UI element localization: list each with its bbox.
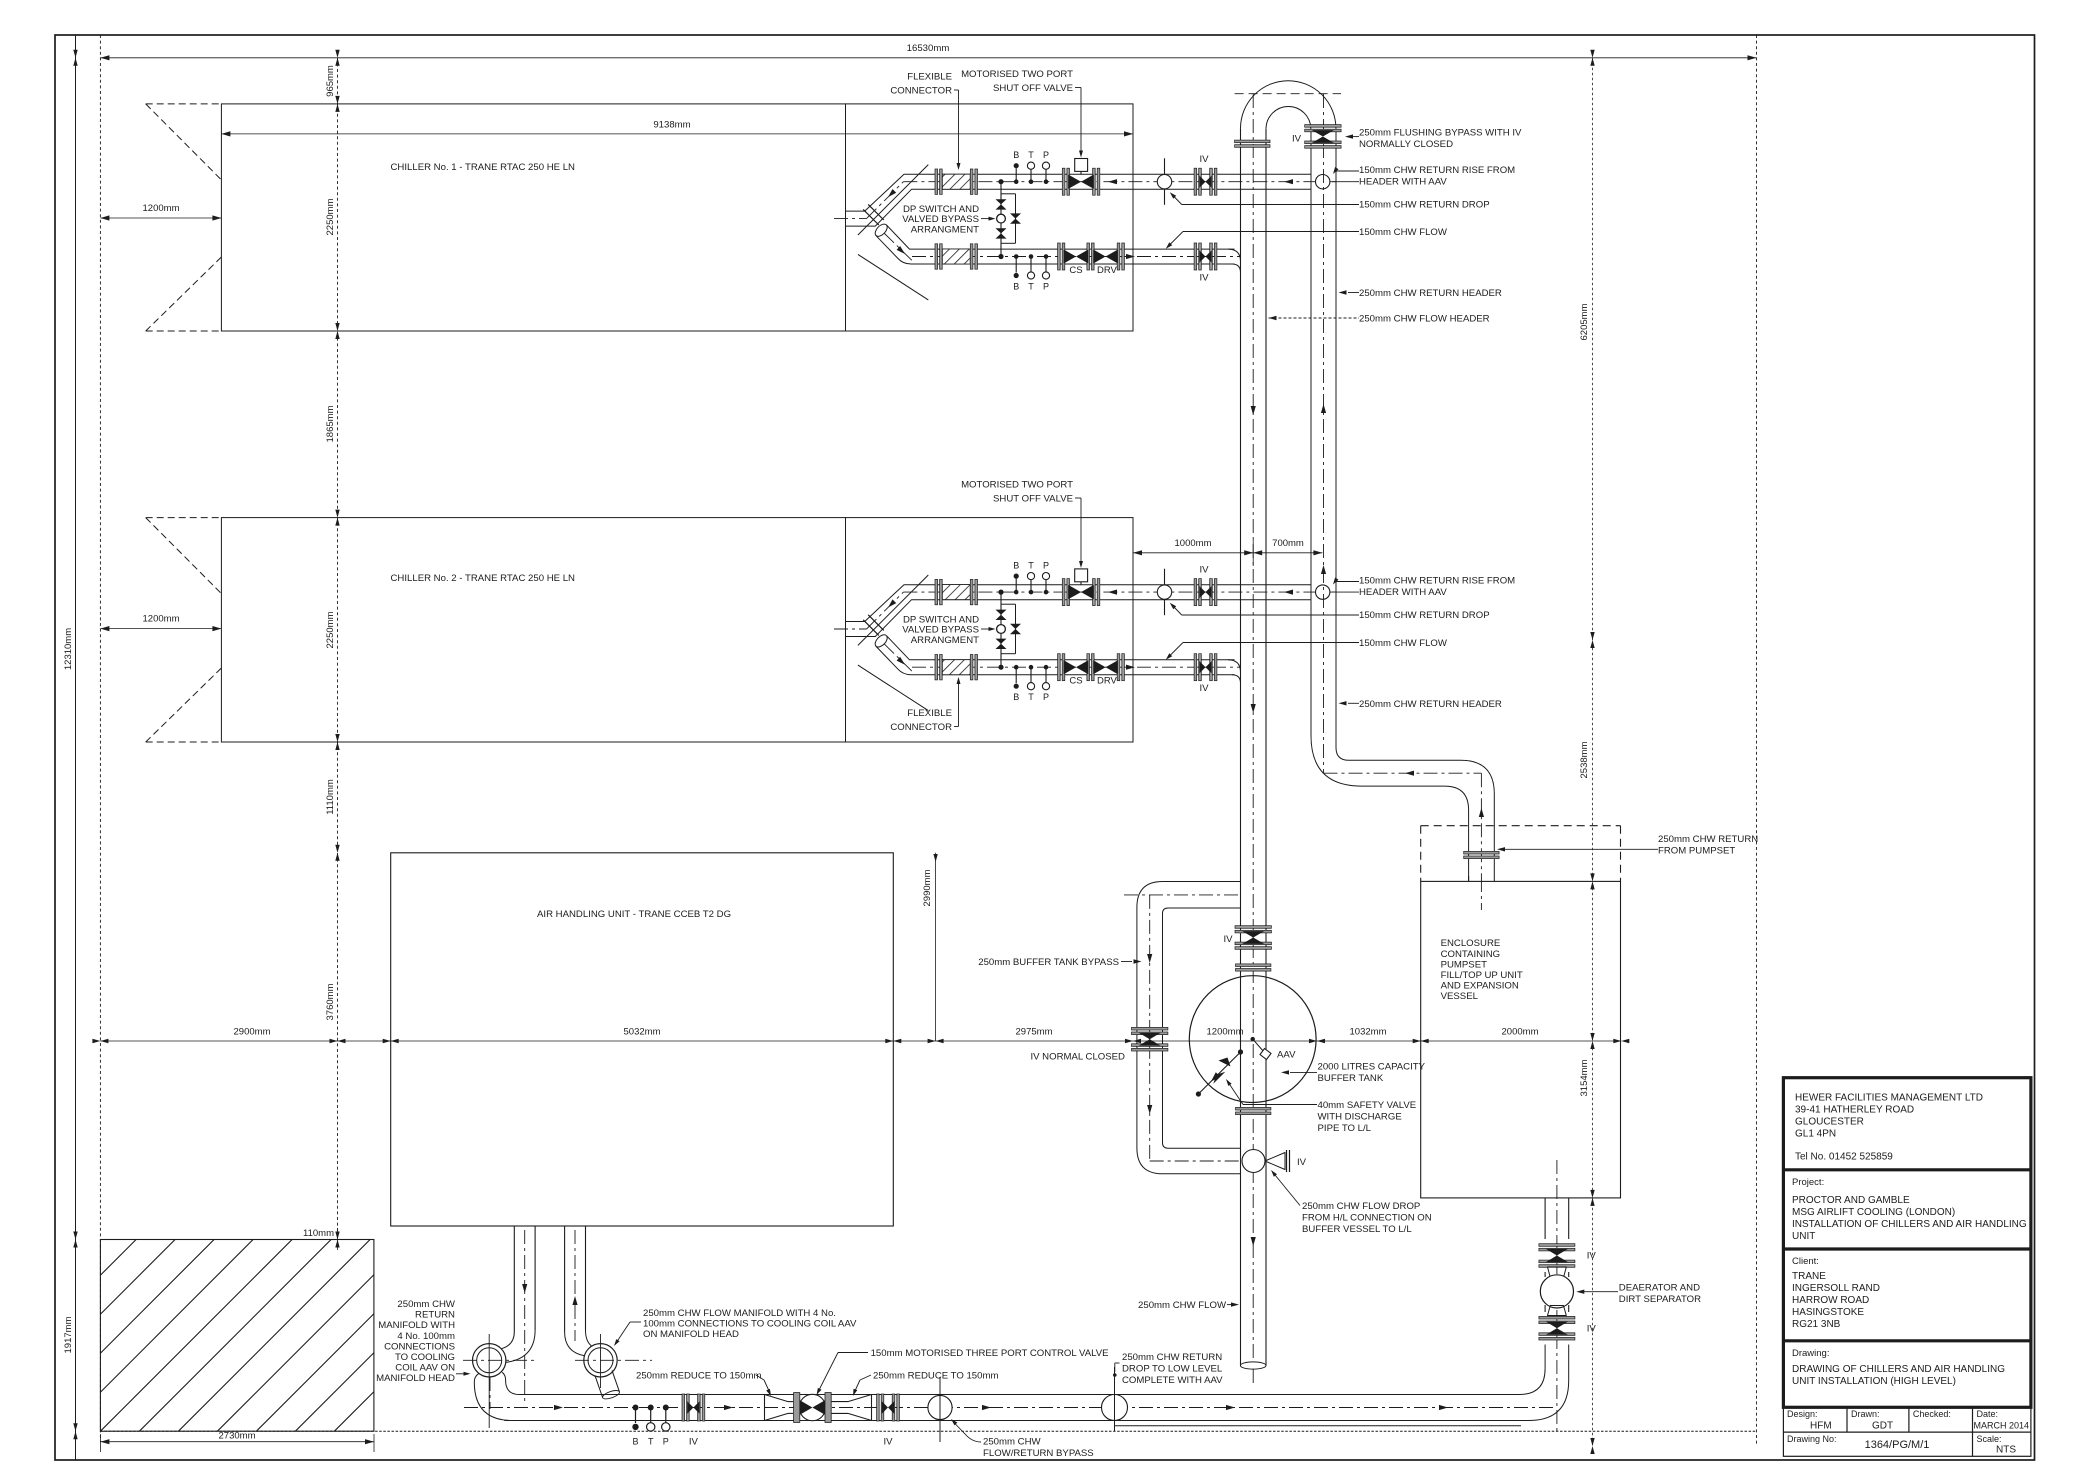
svg-text:2900mm: 2900mm xyxy=(234,1027,271,1038)
bypass pipe line to riser xyxy=(1115,1425,1521,1427)
svg-text:P: P xyxy=(1043,692,1049,702)
chiller 2 test points B T P on flow xyxy=(1013,665,1049,702)
svg-text:COMPLETE WITH AAV: COMPLETE WITH AAV xyxy=(1122,1375,1223,1386)
svg-text:UNIT INSTALLATION (HIGH LEVEL): UNIT INSTALLATION (HIGH LEVEL) xyxy=(1792,1376,1956,1387)
deaerator and dirt separator vessel xyxy=(1540,1267,1573,1316)
chiller 2 return flow arrow near header xyxy=(1284,590,1293,595)
svg-text:1917mm: 1917mm xyxy=(63,1316,74,1353)
svg-text:CONNECTOR: CONNECTOR xyxy=(890,722,952,733)
svg-text:250mm CHW RETURN: 250mm CHW RETURN xyxy=(1658,834,1758,845)
svg-text:AND EXPANSION: AND EXPANSION xyxy=(1441,981,1519,992)
svg-text:IV: IV xyxy=(1587,1251,1597,1262)
svg-text:SHUT OFF VALVE: SHUT OFF VALVE xyxy=(993,83,1073,94)
svg-text:250mm CHW: 250mm CHW xyxy=(983,1437,1042,1448)
title block company address xyxy=(1783,1093,2031,1170)
dimension line 1200mm chiller1 xyxy=(100,203,221,221)
svg-text:PUMPSET: PUMPSET xyxy=(1441,959,1488,970)
dimension extension line right x1757 xyxy=(1756,35,1758,1446)
bypass valve IV normally closed xyxy=(1132,1027,1168,1051)
svg-text:6205mm: 6205mm xyxy=(1579,303,1590,340)
chiller 1 flexible connector on return xyxy=(935,169,978,194)
svg-text:965mm: 965mm xyxy=(325,65,336,97)
svg-text:700mm: 700mm xyxy=(1272,538,1304,549)
chiller 1 isolation valve IV on return xyxy=(1194,154,1217,195)
return pipe flange at enclosure entry xyxy=(1464,851,1499,854)
chiller 2 motorised valve label xyxy=(961,480,1083,569)
deaerator isolation valve IV upper xyxy=(1539,1244,1596,1268)
chiller 1 flow direction arrow xyxy=(1126,254,1135,259)
svg-text:BUFFER TANK: BUFFER TANK xyxy=(1318,1073,1384,1084)
svg-text:INSTALLATION OF CHILLERS AND A: INSTALLATION OF CHILLERS AND AIR HANDLIN… xyxy=(1792,1219,2027,1230)
chiller 1 return flow direction arrow xyxy=(1108,179,1117,184)
chiller 1 DP switch and valved bypass xyxy=(996,179,1022,259)
chiller 2 return flow direction arrow xyxy=(1108,590,1117,595)
svg-text:B: B xyxy=(632,1437,638,1447)
svg-text:HARROW ROAD: HARROW ROAD xyxy=(1792,1295,1869,1306)
label 40mm safety valve xyxy=(1226,1079,1416,1134)
drain valve IV with cap at flow drop xyxy=(1242,1150,1307,1173)
svg-text:FLEXIBLE: FLEXIBLE xyxy=(907,72,952,83)
svg-text:IV: IV xyxy=(1223,934,1233,945)
svg-text:IV: IV xyxy=(689,1437,699,1448)
air handling unit box xyxy=(391,853,894,1226)
chiller 2 flexible connector label xyxy=(890,677,960,733)
svg-text:T: T xyxy=(1028,282,1034,292)
svg-text:FROM H/L CONNECTION ON: FROM H/L CONNECTION ON xyxy=(1302,1213,1432,1224)
svg-text:IV: IV xyxy=(1199,154,1209,165)
svg-text:Design:: Design: xyxy=(1787,1409,1818,1419)
svg-text:2250mm: 2250mm xyxy=(325,611,336,648)
svg-text:RETURN: RETURN xyxy=(415,1310,455,1321)
svg-text:P: P xyxy=(1043,150,1049,160)
label 250mm CHW return manifold xyxy=(376,1299,470,1384)
return header vertical pipe 250mm xyxy=(1311,94,1494,881)
svg-text:250mm CHW RETURN: 250mm CHW RETURN xyxy=(1122,1352,1222,1363)
dimension line 2990mm AHU right xyxy=(922,853,938,1041)
svg-text:250mm CHW FLOW DROP: 250mm CHW FLOW DROP xyxy=(1302,1201,1420,1212)
flow-return bypass connection circle xyxy=(928,1377,952,1442)
svg-text:RG21 3NB: RG21 3NB xyxy=(1792,1319,1841,1330)
svg-text:1200mm: 1200mm xyxy=(1207,1027,1244,1038)
svg-text:T: T xyxy=(1028,692,1034,702)
svg-text:Drawing No:: Drawing No: xyxy=(1787,1434,1837,1444)
chiller 2 DP switch and valved bypass xyxy=(996,590,1022,670)
datum line bottom xyxy=(100,1430,1756,1432)
chiller 1 flexible connector label xyxy=(890,72,960,171)
pumpset enclosure box xyxy=(1421,881,1621,1198)
svg-text:150mm CHW RETURN RISE FROM: 150mm CHW RETURN RISE FROM xyxy=(1359,165,1515,176)
svg-text:ARRANGMENT: ARRANGMENT xyxy=(911,225,979,236)
chiller 2 flow direction arrow xyxy=(1126,665,1135,670)
buffer tank AAV symbol xyxy=(1251,1037,1297,1061)
svg-text:IV: IV xyxy=(1199,273,1209,284)
svg-text:CHILLER No. 2 - TRANE RTAC 250: CHILLER No. 2 - TRANE RTAC 250 HE LN xyxy=(391,573,576,584)
svg-text:150mm CHW FLOW: 150mm CHW FLOW xyxy=(1359,227,1448,238)
svg-text:250mm CHW RETURN HEADER: 250mm CHW RETURN HEADER xyxy=(1359,699,1502,710)
bottom main pipe 250mm flow-return xyxy=(464,1395,1557,1421)
svg-text:250mm CHW: 250mm CHW xyxy=(397,1299,456,1310)
svg-text:WITH DISCHARGE: WITH DISCHARGE xyxy=(1318,1112,1402,1123)
flushing bypass valve IV on return header xyxy=(1292,125,1341,149)
title block drawing section xyxy=(1792,1348,2005,1387)
label 150mm CHW flow chiller2 xyxy=(1166,638,1448,660)
chiller 1 flow branch elbow into flow header xyxy=(1228,249,1241,272)
svg-text:110mm: 110mm xyxy=(303,1228,334,1239)
chiller 2 DP switch label xyxy=(902,614,995,646)
svg-text:ON MANIFOLD HEAD: ON MANIFOLD HEAD xyxy=(643,1329,739,1340)
label 250mm CHW return from pumpset xyxy=(1497,834,1758,857)
svg-text:IV: IV xyxy=(883,1437,893,1448)
svg-text:B: B xyxy=(1013,561,1019,571)
svg-text:DRV: DRV xyxy=(1097,676,1118,687)
chiller 2 flexible connector on return xyxy=(935,579,978,604)
svg-text:T: T xyxy=(648,1437,654,1447)
hatched plinth box xyxy=(0,1236,529,1431)
CHILLER No. 2 - TRANE RTAC 250 HE LN chevron notch xyxy=(146,518,222,742)
chiller 1 return connection flange ticks xyxy=(863,204,884,225)
svg-text:Project:: Project: xyxy=(1792,1177,1824,1188)
title block client section xyxy=(1783,1256,2031,1341)
svg-text:IV: IV xyxy=(1199,683,1209,694)
svg-text:Drawn:: Drawn: xyxy=(1851,1409,1880,1419)
svg-text:1364/PG/M/1: 1364/PG/M/1 xyxy=(1865,1439,1930,1451)
svg-text:250mm CHW FLOW: 250mm CHW FLOW xyxy=(1138,1300,1227,1311)
svg-text:GLOUCESTER: GLOUCESTER xyxy=(1795,1117,1864,1128)
svg-text:250mm CHW RETURN HEADER: 250mm CHW RETURN HEADER xyxy=(1359,288,1502,299)
svg-text:CONTAINING: CONTAINING xyxy=(1441,949,1501,960)
svg-text:FLEXIBLE: FLEXIBLE xyxy=(907,708,952,719)
svg-text:HEWER FACILITIES MANAGEMENT LT: HEWER FACILITIES MANAGEMENT LTD xyxy=(1795,1093,1983,1104)
return header up arrows xyxy=(1321,404,1326,574)
return manifold drop pipe to bottom main xyxy=(474,1372,522,1420)
chiller 2 flow branch pipe xyxy=(873,633,1240,675)
svg-text:GL1 4PN: GL1 4PN xyxy=(1795,1129,1836,1140)
svg-text:B: B xyxy=(1013,282,1019,292)
svg-text:2975mm: 2975mm xyxy=(1016,1027,1053,1038)
chiller 1 flexible connector on flow xyxy=(935,244,978,269)
label 2000 litres capacity buffer tank xyxy=(1281,1062,1426,1085)
svg-text:2990mm: 2990mm xyxy=(922,869,933,906)
flow header flange below U xyxy=(1235,140,1270,147)
svg-text:1200mm: 1200mm xyxy=(143,614,180,625)
svg-text:B: B xyxy=(1013,692,1019,702)
isolation valve IV above buffer tank xyxy=(1223,926,1271,971)
chiller 2 AAV circle at return header xyxy=(1316,585,1330,599)
svg-text:2000 LITRES CAPACITY: 2000 LITRES CAPACITY xyxy=(1318,1062,1426,1073)
chiller 2 isolation valve IV on flow xyxy=(1194,654,1217,695)
bottom isolation valve IV second xyxy=(877,1394,900,1448)
return run arrow toward header xyxy=(1405,771,1414,776)
svg-text:FROM PUMPSET: FROM PUMPSET xyxy=(1658,846,1735,857)
label 150mm CHW return drop chiller2 xyxy=(1170,603,1490,621)
dimension line 2730mm xyxy=(100,1431,374,1453)
svg-text:BUFFER VESSEL TO L/L: BUFFER VESSEL TO L/L xyxy=(1302,1224,1412,1235)
svg-text:250mm REDUCE TO 150mm: 250mm REDUCE TO 150mm xyxy=(873,1371,998,1382)
title block signature rows xyxy=(1783,1407,2031,1456)
svg-text:NTS: NTS xyxy=(1996,1445,2016,1456)
svg-text:Tel No. 01452 525859: Tel No. 01452 525859 xyxy=(1795,1152,1893,1163)
svg-text:ARRANGMENT: ARRANGMENT xyxy=(911,635,979,646)
svg-text:AIR HANDLING UNIT - TRANE CCEB: AIR HANDLING UNIT - TRANE CCEB T2 DG xyxy=(537,909,731,920)
horizontal dimension chain y1041 xyxy=(92,1027,1629,1044)
svg-text:P: P xyxy=(1043,282,1049,292)
header U bend top xyxy=(1235,81,1341,129)
svg-text:150mm CHW RETURN RISE FROM: 150mm CHW RETURN RISE FROM xyxy=(1359,576,1515,587)
svg-text:1865mm: 1865mm xyxy=(325,405,336,442)
bottom isolation valve IV first xyxy=(682,1394,705,1448)
label 250mm flushing bypass xyxy=(1345,128,1522,151)
chiller 1 test points B T P on return xyxy=(1013,150,1049,184)
svg-text:P: P xyxy=(663,1437,669,1447)
svg-text:DIRT SEPARATOR: DIRT SEPARATOR xyxy=(1619,1294,1701,1305)
label 250mm CHW flow manifold xyxy=(614,1308,857,1346)
svg-text:1200mm: 1200mm xyxy=(143,203,180,214)
svg-text:250mm FLUSHING BYPASS WITH IV: 250mm FLUSHING BYPASS WITH IV xyxy=(1359,128,1522,139)
chiller 2 return pipe end cut line xyxy=(858,575,928,645)
dimension line 16530mm top xyxy=(100,43,1756,60)
label 250mm CHW flow header xyxy=(1269,314,1490,325)
svg-text:DEAERATOR AND: DEAERATOR AND xyxy=(1619,1283,1700,1294)
bottom pipe flow arrows xyxy=(554,1405,1448,1410)
three port control valve xyxy=(794,1393,832,1423)
chiller 2 flexible connector on flow xyxy=(935,655,978,680)
svg-text:PIPE TO L/L: PIPE TO L/L xyxy=(1318,1123,1372,1134)
svg-text:100mm CONNECTIONS TO COOLING C: 100mm CONNECTIONS TO COOLING COIL AAV xyxy=(643,1319,857,1330)
chiller 1 AAV circle at return header xyxy=(1316,175,1330,189)
svg-text:IV: IV xyxy=(1297,1157,1307,1168)
svg-text:HFM: HFM xyxy=(1810,1421,1832,1432)
label 250mm reduce to 150mm left xyxy=(636,1371,771,1396)
CHILLER No. 1 - TRANE RTAC 250 HE LN chevron notch xyxy=(146,104,222,331)
label 250mm CHW return header lower xyxy=(1339,699,1502,710)
dimension extension line left x100 xyxy=(99,35,101,1442)
chiller 2 flow branch elbow into flow header xyxy=(1228,660,1241,683)
svg-text:1000mm: 1000mm xyxy=(1175,538,1212,549)
svg-text:12310mm: 12310mm xyxy=(63,628,74,670)
dimension line 9138mm chiller1 xyxy=(221,120,1133,137)
dimension line 1200mm chiller2 xyxy=(100,614,221,632)
bottom test points B T P xyxy=(632,1405,670,1447)
label 150mm CHW return drop chiller1 xyxy=(1170,192,1490,210)
svg-text:INGERSOLL RAND: INGERSOLL RAND xyxy=(1792,1283,1880,1294)
svg-text:IV NORMAL CLOSED: IV NORMAL CLOSED xyxy=(1030,1052,1125,1063)
svg-text:UNIT: UNIT xyxy=(1792,1231,1815,1242)
chiller 2 return branch pipe xyxy=(834,585,1336,637)
svg-text:MOTORISED TWO PORT: MOTORISED TWO PORT xyxy=(961,69,1073,80)
CHILLER No. 1 - TRANE RTAC 250 HE LN box xyxy=(221,104,1133,331)
svg-text:150mm CHW RETURN DROP: 150mm CHW RETURN DROP xyxy=(1359,200,1490,211)
dimension chain left x338 verticals xyxy=(335,50,339,1248)
svg-text:Client:: Client: xyxy=(1792,1256,1819,1267)
svg-text:16530mm: 16530mm xyxy=(907,43,950,54)
svg-text:4 No. 100mm: 4 No. 100mm xyxy=(397,1331,455,1342)
chiller 1 flow pipe end cut line xyxy=(858,254,928,300)
label 250mm CHW return drop to low level xyxy=(1113,1352,1223,1386)
svg-text:1032mm: 1032mm xyxy=(1350,1027,1387,1038)
return pipe stub inside enclosure xyxy=(1469,876,1482,910)
dimension chain right x1592 6205 2538 3154 xyxy=(1579,50,1595,1454)
pumpset enclosure dashed top xyxy=(1421,826,1621,882)
svg-text:Checked:: Checked: xyxy=(1913,1409,1951,1419)
svg-text:MANIFOLD WITH: MANIFOLD WITH xyxy=(378,1320,455,1331)
svg-text:CHILLER No. 1 - TRANE RTAC 250: CHILLER No. 1 - TRANE RTAC 250 HE LN xyxy=(391,162,576,173)
chiller 2 return connection flange ticks xyxy=(863,615,884,636)
pumpset enclosure text xyxy=(1441,938,1523,1002)
svg-text:CS: CS xyxy=(1069,265,1082,276)
chiller 1 motorised two port shut off valve xyxy=(1062,159,1099,196)
AHU flow rise pipe from manifold xyxy=(565,1226,593,1356)
svg-text:3154mm: 3154mm xyxy=(1579,1059,1590,1096)
svg-text:FLOW/RETURN BYPASS: FLOW/RETURN BYPASS xyxy=(983,1448,1094,1459)
chiller 2 AAV on return drop xyxy=(1157,569,1171,616)
svg-text:CONNECTOR: CONNECTOR xyxy=(890,86,952,97)
svg-text:HEADER WITH AAV: HEADER WITH AAV xyxy=(1359,177,1447,188)
chiller 2 motorised two port shut off valve xyxy=(1062,569,1099,606)
label 150mm CHW return rise chiller2 xyxy=(1332,576,1515,599)
svg-text:Date:: Date: xyxy=(1977,1409,1999,1419)
svg-text:3760mm: 3760mm xyxy=(325,983,336,1020)
svg-text:150mm CHW FLOW: 150mm CHW FLOW xyxy=(1359,638,1448,649)
svg-text:2538mm: 2538mm xyxy=(1579,741,1590,778)
svg-text:DRAWING OF CHILLERS AND AIR HA: DRAWING OF CHILLERS AND AIR HANDLING xyxy=(1792,1364,2005,1375)
40mm safety valve on tank xyxy=(1196,1049,1243,1096)
2000 litres buffer tank xyxy=(1189,976,1316,1103)
label 250mm CHW flow at drop pipe xyxy=(1138,1300,1239,1311)
svg-text:9138mm: 9138mm xyxy=(653,120,690,131)
svg-text:5032mm: 5032mm xyxy=(624,1027,661,1038)
svg-text:CS: CS xyxy=(1069,676,1082,687)
svg-text:39-41 HATHERLEY ROAD: 39-41 HATHERLEY ROAD xyxy=(1795,1105,1914,1116)
svg-text:ENCLOSURE: ENCLOSURE xyxy=(1441,938,1501,949)
svg-text:IV: IV xyxy=(1587,1323,1597,1334)
svg-text:PROCTOR AND GAMBLE: PROCTOR AND GAMBLE xyxy=(1792,1195,1910,1206)
label 150mm CHW flow chiller1 xyxy=(1166,227,1448,249)
chiller 1 CS and DRV valves xyxy=(1058,243,1125,276)
chiller 1 motorised valve label xyxy=(961,69,1083,158)
svg-text:250mm REDUCE TO 150mm: 250mm REDUCE TO 150mm xyxy=(636,1371,761,1382)
flow header down arrows xyxy=(1251,406,1256,1246)
svg-text:T: T xyxy=(1028,561,1034,571)
svg-text:HEADER WITH AAV: HEADER WITH AAV xyxy=(1359,587,1447,598)
chiller 1 isolation valve IV on flow xyxy=(1194,243,1217,284)
svg-text:TO COOLING: TO COOLING xyxy=(395,1352,455,1363)
svg-text:TRANE: TRANE xyxy=(1792,1271,1826,1282)
svg-text:250mm CHW FLOW HEADER: 250mm CHW FLOW HEADER xyxy=(1359,314,1490,325)
label 150mm CHW return rise chiller1 xyxy=(1332,165,1515,188)
svg-text:CONNECTIONS: CONNECTIONS xyxy=(384,1341,455,1352)
svg-text:150mm MOTORISED THREE PORT CON: 150mm MOTORISED THREE PORT CONTROL VALVE xyxy=(871,1348,1109,1359)
svg-text:SHUT OFF VALVE: SHUT OFF VALVE xyxy=(993,494,1073,505)
svg-text:2730mm: 2730mm xyxy=(219,1431,256,1442)
svg-text:2000mm: 2000mm xyxy=(1502,1027,1539,1038)
buffer tank bypass pipe xyxy=(1124,882,1241,1174)
chiller 2 flow pipe end cut line xyxy=(858,665,928,711)
svg-text:COIL AAV ON: COIL AAV ON xyxy=(395,1363,455,1374)
title block project section xyxy=(1783,1177,2031,1249)
svg-text:DRV: DRV xyxy=(1097,265,1118,276)
return riser up arrow at pumpset xyxy=(1479,808,1484,817)
flow manifold with connections xyxy=(575,1334,652,1401)
svg-text:250mm CHW FLOW MANIFOLD WITH 4: 250mm CHW FLOW MANIFOLD WITH 4 No. xyxy=(643,1308,836,1319)
chiller 1 AAV on return drop xyxy=(1157,158,1171,205)
svg-text:AAV: AAV xyxy=(1277,1050,1296,1061)
label 250mm CHW return header upper xyxy=(1339,288,1502,299)
svg-text:T: T xyxy=(1028,150,1034,160)
AHU return drop pipe to manifold xyxy=(501,1226,535,1402)
label 250mm CHW flow drop from buffer vessel xyxy=(1271,1170,1432,1235)
svg-text:40mm SAFETY VALVE: 40mm SAFETY VALVE xyxy=(1318,1100,1417,1111)
svg-text:P: P xyxy=(1043,561,1049,571)
return manifold with connections xyxy=(463,1334,534,1428)
svg-text:MANIFOLD HEAD: MANIFOLD HEAD xyxy=(376,1373,455,1384)
deaerator suction riser pipe xyxy=(1516,1160,1569,1432)
svg-text:HASINGSTOKE: HASINGSTOKE xyxy=(1792,1307,1864,1318)
AAV circle on return drop connection xyxy=(1102,1367,1128,1431)
label deaerator and dirt separator xyxy=(1576,1283,1701,1306)
dimension line 12310mm left xyxy=(63,50,78,1439)
svg-text:MARCH 2014: MARCH 2014 xyxy=(1973,1421,2029,1431)
label 150mm motorised three port control valve xyxy=(817,1348,1109,1395)
svg-text:1110mm: 1110mm xyxy=(325,779,336,815)
dimension line 1000mm 700mm chiller2 xyxy=(1133,538,1322,566)
buffer tank bottom flange xyxy=(1236,1107,1271,1110)
reducer 250 to 150 left xyxy=(765,1395,794,1421)
svg-text:MOTORISED TWO PORT: MOTORISED TWO PORT xyxy=(961,480,1073,491)
flow header vertical pipe 250mm xyxy=(1240,94,1266,1385)
chiller 1 test points B T P on flow xyxy=(1013,254,1049,291)
svg-text:NORMALLY CLOSED: NORMALLY CLOSED xyxy=(1359,139,1453,150)
svg-text:FILL/TOP UP UNIT: FILL/TOP UP UNIT xyxy=(1441,970,1523,981)
chiller 1 return branch pipe xyxy=(834,174,1336,226)
svg-text:MSG AIRLIFT COOLING (LONDON): MSG AIRLIFT COOLING (LONDON) xyxy=(1792,1207,1955,1218)
svg-text:150mm CHW RETURN DROP: 150mm CHW RETURN DROP xyxy=(1359,610,1490,621)
chiller 1 return flow arrow near header xyxy=(1284,179,1293,184)
svg-text:GDT: GDT xyxy=(1872,1421,1893,1432)
label 250mm CHW flow-return bypass xyxy=(951,1419,1094,1459)
svg-text:2250mm: 2250mm xyxy=(325,198,336,235)
label 250mm reduce to 150mm right xyxy=(853,1371,998,1396)
chiller 2 test points B T P on return xyxy=(1013,561,1049,595)
chiller 2 CS and DRV valves xyxy=(1058,654,1125,687)
svg-text:DROP TO LOW LEVEL: DROP TO LOW LEVEL xyxy=(1122,1363,1223,1374)
svg-text:250mm BUFFER TANK BYPASS: 250mm BUFFER TANK BYPASS xyxy=(978,957,1119,968)
svg-text:Scale:: Scale: xyxy=(1977,1434,2002,1444)
svg-text:Drawing:: Drawing: xyxy=(1792,1348,1830,1359)
svg-text:IV: IV xyxy=(1199,565,1209,576)
svg-text:B: B xyxy=(1013,150,1019,160)
title block outer box xyxy=(1783,1078,2031,1408)
chiller 1 return pipe end cut line xyxy=(858,165,928,235)
chiller 2 isolation valve IV on return xyxy=(1194,565,1217,606)
CHILLER No. 2 - TRANE RTAC 250 HE LN box xyxy=(221,518,1133,742)
svg-text:IV: IV xyxy=(1292,134,1302,145)
reducer 150 to 250 right xyxy=(832,1395,872,1421)
deaerator isolation valve IV lower xyxy=(1539,1316,1596,1340)
chiller 1 DP switch label xyxy=(902,204,995,236)
chiller 1 flow branch pipe xyxy=(873,222,1240,264)
label 250mm buffer tank bypass xyxy=(978,957,1141,968)
svg-text:VESSEL: VESSEL xyxy=(1441,991,1479,1002)
